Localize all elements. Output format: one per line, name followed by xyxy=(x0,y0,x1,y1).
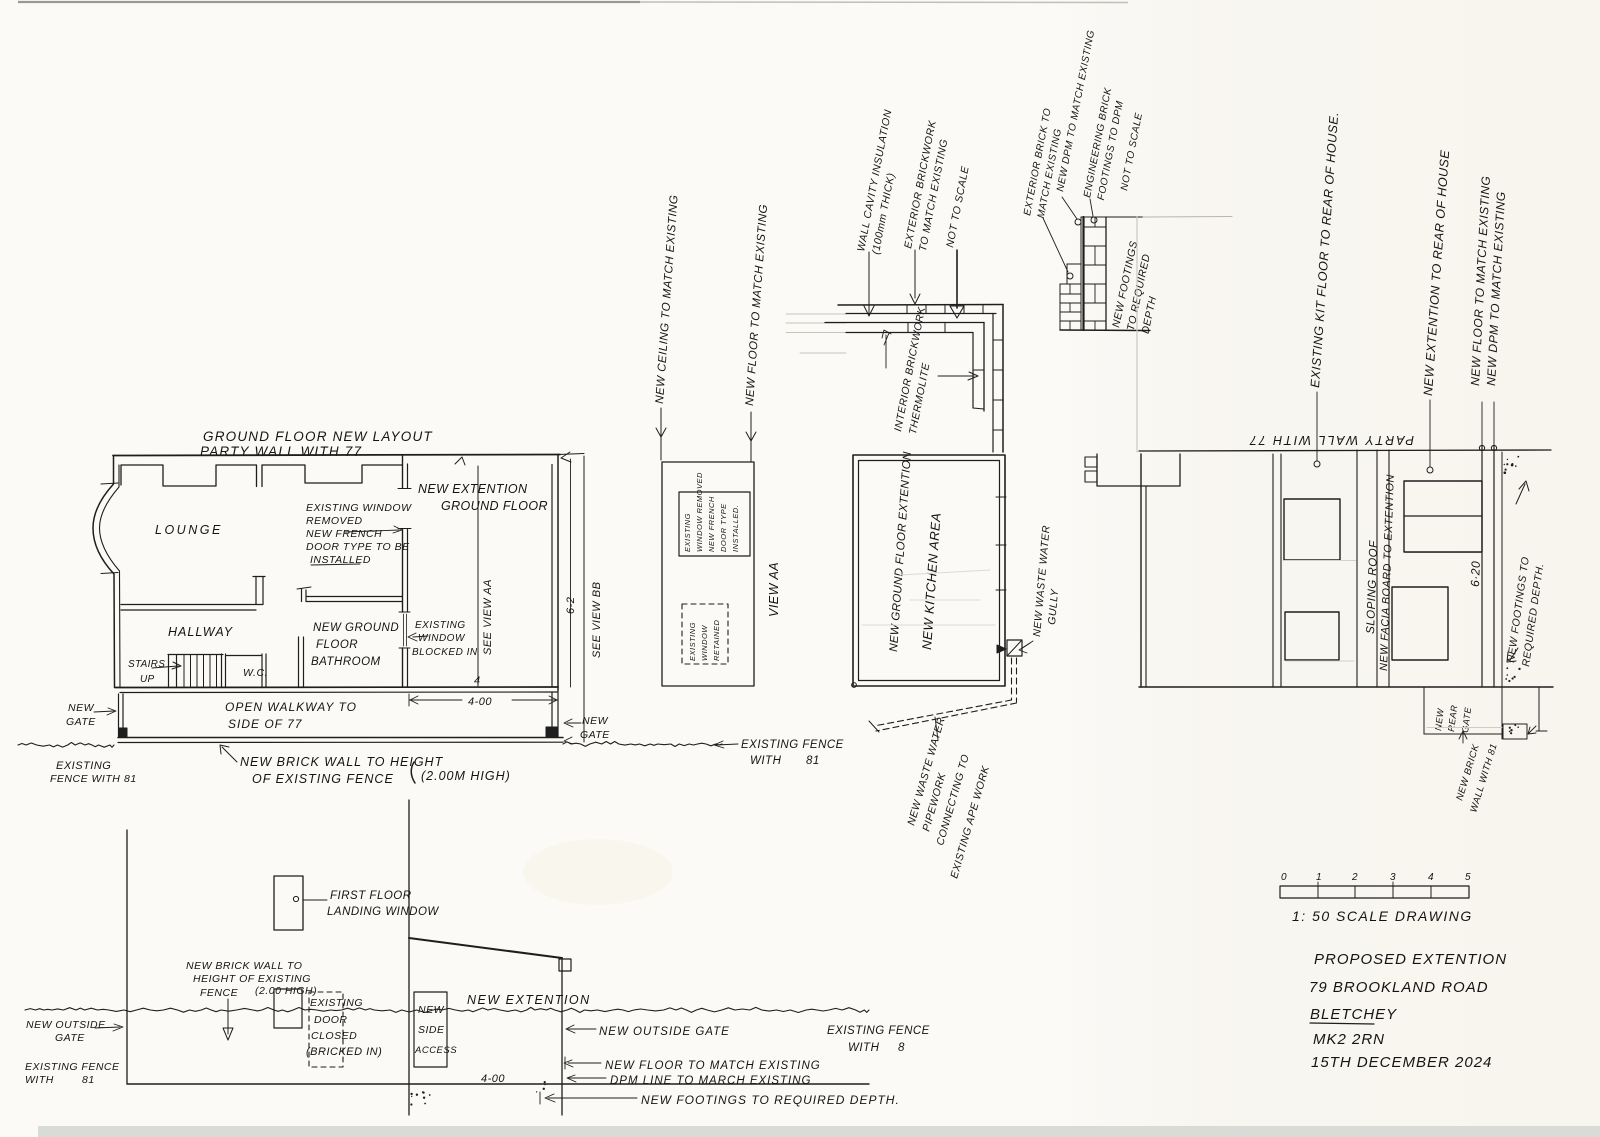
side elevation: fascia block xyxy=(559,959,571,971)
footing detail: leader lines with circles xyxy=(1043,218,1068,272)
svg-text:NEW: NEW xyxy=(418,1004,445,1016)
wall corner detail: exterior brick leaf (horizontal) xyxy=(838,304,1003,307)
plan: open walkway strip xyxy=(119,694,124,737)
side elevation: new side access xyxy=(414,992,447,1067)
svg-text:BLOCKED IN: BLOCKED IN xyxy=(412,647,478,658)
svg-text:81: 81 xyxy=(806,755,820,767)
svg-text:EXISTING FENCE: EXISTING FENCE xyxy=(25,1061,120,1073)
svg-text:1: 1 xyxy=(1316,872,1322,883)
paper bottom scanner strip xyxy=(38,1126,1600,1137)
side elevation: existing door closed (dashed) xyxy=(309,992,343,1067)
wall corner detail: exterior brick leaf (vertical leg) xyxy=(1002,305,1004,453)
svg-text:EXISTING FENCE: EXISTING FENCE xyxy=(827,1025,930,1037)
elevation: facia board lines xyxy=(1376,450,1378,687)
plan: extension width dimension 4-00 xyxy=(409,694,558,706)
elevation: left party wall line xyxy=(1140,454,1142,687)
svg-text:GATE: GATE xyxy=(55,1032,85,1044)
svg-text:MK2 2RN: MK2 2RN xyxy=(1313,1031,1385,1048)
elevation: new floor / dpm line pair xyxy=(1481,445,1483,687)
svg-text:(2.00 HIGH): (2.00 HIGH) xyxy=(255,985,317,997)
svg-text:CLOSED: CLOSED xyxy=(311,1030,357,1042)
svg-text:PROPOSED EXTENTION: PROPOSED EXTENTION xyxy=(1314,951,1507,968)
svg-text:EXISTING FENCE: EXISTING FENCE xyxy=(741,739,844,751)
svg-text:FIRST FLOOR: FIRST FLOOR xyxy=(330,890,412,902)
side elevation: ground line xyxy=(127,1083,869,1085)
svg-text:SEE VIEW AA: SEE VIEW AA xyxy=(482,579,494,655)
svg-text:OPEN WALKWAY TO: OPEN WALKWAY TO xyxy=(225,700,357,714)
existing fence line (left of plan) xyxy=(18,742,114,747)
svg-text:6-2: 6-2 xyxy=(565,597,577,614)
plan: dimension 6-2 on right wall xyxy=(570,459,572,687)
kitchen: window ticks on right wall xyxy=(996,496,1006,498)
existing fence line (right of plan) xyxy=(563,742,722,747)
elevation: stipple marks (bottom) xyxy=(1512,677,1514,679)
elevation: right boundary line xyxy=(1501,452,1503,739)
svg-text:HALLWAY: HALLWAY xyxy=(168,625,234,639)
svg-text:8: 8 xyxy=(898,1042,905,1054)
elevation: stipple marks (top) xyxy=(1511,464,1514,467)
plan: section line BB xyxy=(583,456,585,742)
svg-text:EXISTING: EXISTING xyxy=(310,997,363,1009)
svg-text:VIEW AA: VIEW AA xyxy=(767,562,781,617)
kitchen: faint pencil marks xyxy=(862,624,995,626)
scale bar xyxy=(1280,886,1469,898)
elevation: extension window (top right pair) xyxy=(1404,481,1482,552)
svg-text:SEE VIEW BB: SEE VIEW BB xyxy=(591,582,603,658)
plan: bathroom walls xyxy=(299,589,403,687)
svg-text:81: 81 xyxy=(124,773,137,785)
svg-text:GROUND FLOOR NEW LAYOUT: GROUND FLOOR NEW LAYOUT xyxy=(203,429,433,444)
svg-text:NEW FLOOR TO MATCH EXIST: NEW FLOOR TO MATCH EXISTING xyxy=(605,1060,821,1072)
svg-text:DPM LINE TO MARCH EXISTI: DPM LINE TO MARCH EXISTING xyxy=(610,1075,812,1087)
svg-text:DOOR TYPE TO BE: DOOR TYPE TO BE xyxy=(306,541,410,553)
svg-text:LANDING WINDOW: LANDING WINDOW xyxy=(327,906,439,918)
svg-text:0: 0 xyxy=(1281,872,1287,883)
svg-text:WITH: WITH xyxy=(848,1042,880,1054)
svg-text:(BRICKED IN): (BRICKED IN) xyxy=(306,1046,382,1058)
view AA: existing window retained (dashed) xyxy=(682,604,728,664)
elevation: new rear gate bracket xyxy=(1423,687,1425,734)
svg-text:5: 5 xyxy=(1465,872,1471,883)
svg-text:NEW OUTSIDE: NEW OUTSIDE xyxy=(26,1019,106,1031)
svg-text:OF EXISTING FENCE: OF EXISTING FENCE xyxy=(252,772,394,786)
elevation: chimney xyxy=(1097,454,1180,486)
elevation: stippled footing box xyxy=(1503,724,1527,739)
elevation: footing arrows xyxy=(1516,484,1525,504)
svg-text:15TH DECEMBER 2024: 15TH DECEMBER 2024 xyxy=(1311,1054,1492,1071)
leader: new extention to rear of house xyxy=(1429,400,1431,467)
footing detail: stepped brick footing xyxy=(1080,217,1082,330)
plan: front party wall (top, castellated) xyxy=(113,455,560,456)
svg-text:4: 4 xyxy=(474,675,481,687)
side elevation: left wall xyxy=(126,830,128,1084)
svg-text:GATE: GATE xyxy=(580,729,610,741)
side elevation: first floor landing window xyxy=(274,876,303,930)
elevation: top line (party wall elevation) xyxy=(1139,450,1551,451)
svg-text:EXISTING: EXISTING xyxy=(56,760,111,772)
svg-text:BATHROOM: BATHROOM xyxy=(311,656,381,668)
kitchen: inner wall line xyxy=(859,461,1000,681)
svg-text:REMOVED: REMOVED xyxy=(306,515,363,527)
elevation: ground line xyxy=(1139,686,1553,688)
side elevation: house corner wall xyxy=(408,800,410,1115)
svg-text:79 BROOKLAND ROAD: 79 BROOKLAND ROAD xyxy=(1309,979,1489,996)
side elevation: existing fence line (wavy) xyxy=(25,1007,869,1012)
waste water gully box xyxy=(1007,640,1022,656)
view AA: new french door box xyxy=(679,492,750,556)
svg-text:ACCESS: ACCESS xyxy=(414,1045,457,1056)
svg-text:PARTY WALL WITH 77: PARTY WALL WITH 77 xyxy=(200,444,362,459)
kitchen: outer walls xyxy=(853,455,1005,686)
svg-text:W.C.: W.C. xyxy=(243,667,268,679)
svg-text:SIDE: SIDE xyxy=(418,1024,445,1036)
svg-text:NEW: NEW xyxy=(582,715,609,727)
svg-text:EXISTING WINDOW: EXISTING WINDOW xyxy=(306,502,412,514)
svg-text:4-00: 4-00 xyxy=(481,1073,505,1085)
plan: w.c. walls xyxy=(222,654,267,687)
paper top edge xyxy=(18,1,640,3)
svg-text:UP: UP xyxy=(140,674,155,685)
plan: section line AA with arrow marks xyxy=(477,466,479,686)
plan: staircase xyxy=(168,655,223,687)
svg-text:FLOOR: FLOOR xyxy=(316,639,358,651)
svg-text:EXISTING: EXISTING xyxy=(415,620,466,631)
leader: existing kit floor to rear of house xyxy=(1316,392,1318,461)
footing detail: ground line xyxy=(1081,216,1143,218)
wall corner detail: inner thermalite leaf (horizontal) xyxy=(825,322,984,324)
elevation: wall line pair (existing/extension junction) xyxy=(1272,454,1274,687)
svg-text:(2.00M HIGH): (2.00M HIGH) xyxy=(421,769,511,783)
side elevation: extension end wall xyxy=(561,958,563,1115)
svg-text:FENCE: FENCE xyxy=(200,987,239,999)
plan: internal wall between house and new extension (french door + blocked window) xyxy=(402,456,404,687)
corner detail: arrow to inner vertical leaf xyxy=(938,375,974,377)
elevation: extension window (lower) xyxy=(1392,587,1448,660)
svg-text:GROUND FLOOR: GROUND FLOOR xyxy=(441,499,548,513)
view AA: new ceiling leader xyxy=(660,408,662,460)
svg-text:NEW EXTENTION: NEW EXTENTION xyxy=(467,993,591,1007)
plan: walkway corner blocks xyxy=(119,728,127,737)
svg-text:PARTY WALL WITH 77: PARTY WALL WITH 77 xyxy=(1248,433,1414,447)
plan: hallway internal wall xyxy=(121,577,265,611)
wall corner detail: pencil guide lines xyxy=(786,313,846,315)
svg-text:STAIRS: STAIRS xyxy=(128,659,165,670)
kitchen: corner mark xyxy=(852,683,857,688)
elevation: wall line at sloping roof xyxy=(1356,450,1358,687)
svg-text:NEW EXTENTION: NEW EXTENTION xyxy=(418,482,528,496)
svg-text:SIDE OF 77: SIDE OF 77 xyxy=(228,717,303,731)
svg-text:DOOR: DOOR xyxy=(314,1014,348,1026)
svg-text:4-00: 4-00 xyxy=(468,696,492,708)
svg-text:BLETCHEY: BLETCHEY xyxy=(1310,1006,1397,1023)
waste water pipe (dashed) xyxy=(1011,658,1013,700)
elevation: right footing bracket xyxy=(1538,687,1540,731)
wall corner detail: inner thermalite leaf (vertical leg) xyxy=(983,323,985,412)
svg-text:LOUNGE: LOUNGE xyxy=(155,523,223,537)
svg-text:EXISTINGWINDOWRETAINED: EXISTINGWINDOWRETAINED xyxy=(688,620,721,661)
svg-text:2: 2 xyxy=(1351,872,1358,883)
svg-text:3: 3 xyxy=(1390,872,1396,883)
svg-text:FENCE WITH: FENCE WITH xyxy=(50,773,120,785)
plan: right gable wall of existing house / extension xyxy=(557,455,559,691)
svg-text:WITH: WITH xyxy=(750,755,782,767)
view AA: elevation box xyxy=(662,462,754,686)
svg-text:4: 4 xyxy=(1428,872,1434,883)
side elevation: stipple below access xyxy=(410,1103,412,1105)
svg-text:1: 50 SCALE DRAWING: 1: 50 SCALE DRAWING xyxy=(1292,908,1473,924)
side elevation: sloping roof line xyxy=(409,938,562,958)
paper fold line xyxy=(1136,217,1138,452)
plan: left bay window wall (lounge bay) xyxy=(93,456,115,688)
svg-text:NEW OUTSIDE GATE: NEW OUTSIDE GATE xyxy=(599,1026,730,1038)
svg-text:6·20: 6·20 xyxy=(1468,561,1483,588)
svg-text:81: 81 xyxy=(82,1074,95,1086)
svg-text:WITH: WITH xyxy=(25,1074,54,1086)
svg-text:NEW GROUND: NEW GROUND xyxy=(313,622,399,634)
elevation: pencil guide lines near windows xyxy=(1284,560,1356,562)
svg-text:NEW BRICK WALL TO HEIGHT: NEW BRICK WALL TO HEIGHT xyxy=(240,755,444,769)
elevation: existing house windows xyxy=(1284,499,1340,560)
svg-text:GATE: GATE xyxy=(66,716,96,728)
svg-text:WINDOW: WINDOW xyxy=(418,633,466,644)
side elevation: brick wall pier xyxy=(274,989,302,1028)
svg-text:HEIGHT OF EXISTING: HEIGHT OF EXISTING xyxy=(193,973,311,985)
view AA: new floor leader xyxy=(750,412,752,462)
svg-text:NEW FOOTINGS TO REQUIRED: NEW FOOTINGS TO REQUIRED DEPTH. xyxy=(641,1093,900,1107)
svg-text:NEW: NEW xyxy=(68,702,95,714)
svg-text:NEW FRENCH: NEW FRENCH xyxy=(306,528,382,540)
svg-text:NEW BRICK WALL TO: NEW BRICK WALL TO xyxy=(186,960,302,972)
plan: rear wall of house (bottom of plan) xyxy=(115,686,558,689)
